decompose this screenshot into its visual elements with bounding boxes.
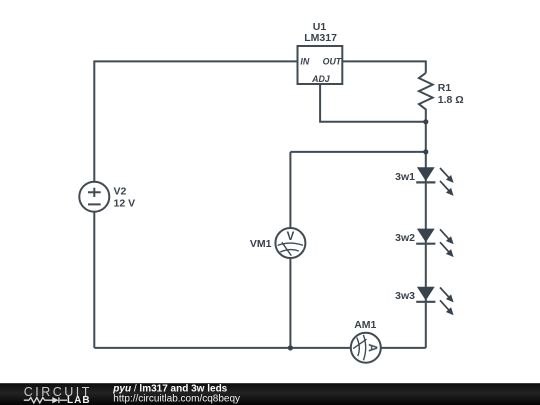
- svg-text:3w1: 3w1: [395, 171, 415, 183]
- svg-text:IN: IN: [300, 56, 309, 66]
- svg-text:3w2: 3w2: [395, 232, 415, 244]
- svg-text:http://circuitlab.com/cq8beqy: http://circuitlab.com/cq8beqy: [113, 393, 240, 404]
- svg-text:AM1: AM1: [354, 319, 376, 331]
- svg-text:12 V: 12 V: [114, 198, 136, 210]
- svg-text:A: A: [366, 344, 378, 352]
- svg-text:V2: V2: [114, 186, 127, 198]
- svg-text:LAB: LAB: [67, 395, 91, 405]
- svg-text:VM1: VM1: [250, 238, 272, 250]
- svg-text:OUT: OUT: [323, 56, 342, 66]
- svg-text:3w3: 3w3: [395, 290, 415, 302]
- svg-text:R1: R1: [438, 82, 452, 94]
- svg-text:1.8 Ω: 1.8 Ω: [438, 94, 464, 106]
- svg-text:V: V: [287, 231, 295, 243]
- svg-text:ADJ: ADJ: [311, 74, 331, 84]
- svg-text:LM317: LM317: [304, 32, 337, 44]
